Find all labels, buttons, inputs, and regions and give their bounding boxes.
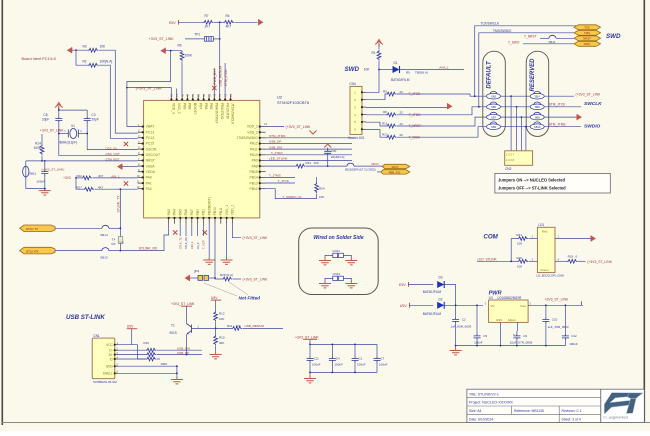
svg-text:+3V3_ST_LINK: +3V3_ST_LINK bbox=[171, 302, 195, 306]
svg-text:10K: 10K bbox=[319, 195, 324, 199]
svg-text:PB15: PB15 bbox=[250, 170, 258, 174]
svg-text:USB_RENUM: USB_RENUM bbox=[219, 66, 223, 87]
svg-text:100nF: 100nF bbox=[569, 342, 578, 346]
svg-text:C10: C10 bbox=[552, 318, 558, 322]
svg-text:100nF: 100nF bbox=[36, 180, 45, 184]
svg-text:PB8_IO2: PB8_IO2 bbox=[389, 170, 401, 174]
net label USB_RENUM bbox=[219, 66, 223, 87]
CN1 pins bbox=[103, 341, 119, 376]
svg-text:TMS/SWDIO: TMS/SWDIO bbox=[493, 29, 512, 33]
wire caps bottom rail bbox=[309, 372, 377, 374]
net label E5V (pwr) bbox=[399, 282, 433, 287]
svg-text:U2: U2 bbox=[277, 95, 283, 100]
svg-text:10K[N.A]: 10K[N.A] bbox=[100, 60, 113, 64]
wire USB_RENUM column bbox=[219, 87, 221, 95]
svg-text:R11: R11 bbox=[227, 324, 233, 328]
note box Wired on Solder Side bbox=[299, 228, 379, 295]
node R3/R2 junction bbox=[75, 49, 77, 51]
svg-text:JTCK/SWCLK: JTCK/SWCLK bbox=[231, 103, 235, 125]
title block table bbox=[467, 389, 601, 422]
wire PB12 to T_SWDIO_IN bbox=[266, 189, 317, 199]
svg-text:SB8: SB8 bbox=[535, 115, 541, 119]
svg-text:PB5: PB5 bbox=[209, 103, 213, 110]
svg-text:100nF: 100nF bbox=[334, 362, 343, 366]
resistor R31 100 (MCO) bbox=[266, 161, 329, 168]
svg-text:PB9: PB9 bbox=[182, 103, 186, 110]
net label +3V3_ST_LINK (osc) bbox=[40, 129, 82, 134]
svg-text:PA9: PA9 bbox=[252, 159, 258, 163]
X mark PC15 bbox=[124, 142, 128, 146]
wire PA10 row / net T_JTDO bbox=[266, 151, 352, 155]
net labels OSC_IN OSC_OUT STM_RST bbox=[105, 146, 120, 161]
capacitor C1 100nF bbox=[352, 344, 366, 372]
svg-text:(+3V3_ST_LINK: (+3V3_ST_LINK bbox=[243, 278, 269, 282]
svg-text:SB4: SB4 bbox=[535, 95, 541, 99]
svg-text:D2: D2 bbox=[439, 298, 443, 302]
svg-text:NRST: NRST bbox=[146, 159, 155, 163]
group outline RESERVED bbox=[526, 51, 549, 136]
svg-text:100K: 100K bbox=[185, 54, 193, 58]
svg-text:PB4/JNTRST: PB4/JNTRST bbox=[215, 103, 219, 123]
svg-text:SB10: SB10 bbox=[534, 125, 541, 129]
svg-text:C30: C30 bbox=[331, 149, 337, 153]
svg-text:R24: R24 bbox=[319, 186, 325, 190]
svg-text:R7: R7 bbox=[205, 14, 209, 18]
ground (pwr) bbox=[450, 346, 462, 355]
wire R3 to PC13 bbox=[72, 50, 138, 133]
ST logo bbox=[603, 393, 643, 420]
svg-text:T1: T1 bbox=[171, 323, 175, 327]
ground (CN1) bbox=[171, 377, 183, 384]
wire U5V rail to U3 bbox=[444, 304, 483, 306]
svg-text:LED_STLINK: LED_STLINK bbox=[478, 257, 498, 261]
net label MCO bbox=[372, 162, 380, 166]
svg-text:RESERVED: RESERVED bbox=[530, 58, 536, 92]
port STLK_TX pill bbox=[20, 225, 55, 232]
svg-text:C12: C12 bbox=[571, 334, 577, 338]
svg-text:CN4: CN4 bbox=[349, 82, 356, 86]
resistor R26 10K [N.A] bbox=[215, 273, 241, 281]
power flag above C8/C9 bbox=[55, 103, 63, 112]
power flag (board ident) bbox=[67, 47, 72, 53]
resistor R7 2K7 bbox=[203, 14, 214, 29]
svg-text:T_VCP: T_VCP bbox=[202, 240, 206, 249]
svg-text:PB12: PB12 bbox=[250, 187, 258, 191]
net label USB_DM bbox=[177, 346, 190, 350]
net label USB_DP bbox=[177, 351, 189, 355]
net label LED_STLINK bbox=[477, 239, 512, 263]
connector CN4 Header 6X1 bbox=[348, 82, 365, 140]
svg-text:T_JTMS: T_JTMS bbox=[269, 174, 281, 178]
wire VSS_3 stub bbox=[176, 89, 178, 95]
svg-text:JTMS/SWDIO: JTMS/SWDIO bbox=[237, 136, 259, 140]
svg-text:R10: R10 bbox=[219, 335, 225, 339]
svg-text:+: + bbox=[513, 332, 515, 336]
svg-text:8MHz(12pF): 8MHz(12pF) bbox=[60, 141, 78, 145]
wire VDD_1 to +3V3 bbox=[232, 224, 241, 238]
svg-text:PA1: PA1 bbox=[146, 181, 152, 185]
capacitor C2 1uF_X5R_0603 bbox=[450, 305, 471, 345]
title block text bbox=[469, 392, 582, 421]
svg-text:+3V3_ST_LINK: +3V3_ST_LINK bbox=[545, 298, 569, 302]
svg-text:D-: D- bbox=[109, 349, 112, 353]
op-amp U2 STM32F103CBT6 body bbox=[144, 100, 260, 217]
svg-text:R2: R2 bbox=[83, 60, 87, 64]
svg-text:100K: 100K bbox=[160, 362, 167, 366]
wire R1 to CN4 pin1 bbox=[366, 61, 380, 92]
svg-text:STM_JTMS: STM_JTMS bbox=[269, 134, 285, 138]
wire PWR_EXT column bbox=[213, 68, 215, 95]
svg-text:Sheet: 3 of 4: Sheet: 3 of 4 bbox=[562, 417, 581, 421]
wire U3 GND legs bbox=[500, 322, 517, 345]
svg-text:NRST: NRST bbox=[583, 37, 591, 41]
capacitor C8 20pF bbox=[42, 110, 62, 123]
wire STM_JTCK column bbox=[224, 63, 226, 95]
wire TMS/SWDIO to pad bbox=[478, 29, 578, 108]
wire SB8 row to power bbox=[544, 114, 582, 120]
wire OSCIN path bbox=[78, 123, 138, 150]
svg-text:ANA_1: ANA_1 bbox=[439, 66, 449, 70]
svg-text:STM32F103CBT6: STM32F103CBT6 bbox=[277, 100, 310, 105]
wire LD1 pin1 to power bbox=[555, 235, 596, 242]
svg-text:STLK RX: STLK RX bbox=[26, 250, 39, 254]
svg-text:PC15: PC15 bbox=[146, 142, 155, 146]
svg-text:VBAT: VBAT bbox=[146, 125, 155, 129]
wire TP1 row bbox=[185, 22, 221, 86]
svg-text:Jumpers ON --> NUCLEO Selecte: Jumpers ON --> NUCLEO Selected bbox=[498, 178, 565, 183]
svg-text:10K: 10K bbox=[219, 317, 224, 321]
logo cell bbox=[601, 389, 645, 422]
net label +3V3_ST_LINK (pwr out) bbox=[545, 298, 582, 306]
diode D1 BAT60JFILM bbox=[391, 61, 410, 82]
svg-text:Title: STLINK/V2-1: Title: STLINK/V2-1 bbox=[469, 392, 499, 396]
wire pwr bottom rail bbox=[455, 345, 566, 347]
U2 top pins bbox=[170, 94, 235, 125]
svg-text:(+3V3_ST_LINK: (+3V3_ST_LINK bbox=[576, 92, 602, 96]
resistor R12 10K bbox=[214, 311, 225, 335]
svg-text:20pF: 20pF bbox=[92, 117, 99, 121]
net label +3V3_ST_LINK (MCU top) bbox=[126, 86, 171, 94]
power flag right of R4 bbox=[259, 19, 264, 25]
wire T_SWO to pad bbox=[508, 40, 578, 44]
svg-text:OSC_IN: OSC_IN bbox=[105, 146, 116, 150]
svg-text:VDD_2: VDD_2 bbox=[247, 125, 258, 129]
power flag left of R6 bbox=[160, 48, 182, 54]
svg-text:Green: Green bbox=[540, 268, 549, 272]
svg-text:+3V3_ST_LINK: +3V3_ST_LINK bbox=[40, 129, 64, 133]
svg-text:100nF: 100nF bbox=[357, 362, 366, 366]
wire junction to MCU VDD rail bbox=[127, 51, 171, 88]
capacitor C9 20pF bbox=[84, 110, 99, 123]
svg-text:U5V: U5V bbox=[400, 304, 408, 308]
connector CN12 bbox=[333, 272, 344, 280]
svg-text:STLK TX: STLK TX bbox=[26, 227, 38, 231]
wire JTMS row / net STM_JTMS bbox=[266, 134, 352, 138]
diode D3 BAT60JFILM bbox=[423, 276, 445, 295]
resistor R1 10K bbox=[364, 50, 381, 72]
wire PA9 row / net LED_STLINK bbox=[266, 157, 352, 161]
svg-text:507BBMN-05-SM: 507BBMN-05-SM bbox=[93, 380, 117, 384]
svg-text:D+: D+ bbox=[109, 353, 113, 357]
capacitor C9 10uF_X7R_0805 bbox=[510, 331, 533, 346]
svg-text:R12: R12 bbox=[219, 311, 225, 315]
resistor R2 10K[N.A] bbox=[83, 60, 113, 67]
wires between jumper columns bbox=[501, 95, 531, 151]
title COM bbox=[483, 234, 498, 241]
svg-text:PA4: PA4 bbox=[173, 209, 177, 215]
svg-text:CN1: CN1 bbox=[93, 334, 100, 338]
wire PB14 row / net T_JTMS bbox=[266, 174, 295, 178]
svg-text:TBD[N.A]: TBD[N.A] bbox=[415, 71, 428, 75]
svg-text:BAT60JFILM: BAT60JFILM bbox=[423, 290, 442, 294]
capacitor C12 100nF bbox=[562, 305, 578, 346]
svg-text:PB3/JTDO: PB3/JTDO bbox=[220, 103, 224, 120]
connector CN1 USB bbox=[92, 334, 117, 384]
group outline DEFAULT bbox=[483, 51, 506, 136]
svg-text:VDDA: VDDA bbox=[146, 170, 156, 174]
svg-text:PA3: PA3 bbox=[167, 209, 171, 215]
resistor R3 10K bbox=[83, 45, 107, 52]
capacitor C13 100nF (NRST) bbox=[26, 161, 65, 189]
svg-text:(+3V3_ST_LINK: (+3V3_ST_LINK bbox=[243, 236, 269, 240]
svg-text:Size: A4: Size: A4 bbox=[469, 409, 482, 413]
wire CN4 pin2 to R5 bbox=[366, 94, 386, 100]
note Not Fitted bbox=[204, 282, 260, 301]
svg-text:R5: R5 bbox=[406, 71, 410, 75]
capacitor C10 1uF_X5R_0603 bbox=[542, 305, 568, 345]
svg-text:VSS_1: VSS_1 bbox=[225, 205, 229, 216]
capacitor C7 100nF bbox=[374, 344, 388, 372]
svg-text:LD1: LD1 bbox=[538, 223, 544, 227]
wire osc top rail bbox=[59, 109, 87, 111]
power flag U5V (CN1) bbox=[119, 325, 138, 345]
frame left border bbox=[1, 0, 3, 425]
svg-text:USB_DM: USB_DM bbox=[269, 145, 282, 149]
wire R2 to PC14 bbox=[76, 50, 138, 138]
svg-text:PA6: PA6 bbox=[184, 209, 188, 215]
power flag above R1 bbox=[375, 40, 383, 50]
jumpers SB4 SB6 SB8 SB10 bbox=[530, 91, 544, 129]
resistor R4 4K7 bbox=[224, 14, 235, 29]
svg-text:Vin: Vin bbox=[491, 304, 496, 308]
net label PWR_EXT bbox=[212, 69, 217, 91]
connector SWD pads bbox=[574, 25, 601, 47]
svg-text:PA0: PA0 bbox=[146, 176, 152, 180]
svg-text:STLINK_RX: STLINK_RX bbox=[139, 246, 158, 250]
resistor R10 36K bbox=[214, 335, 225, 353]
svg-text:+3V3_ST_LINK: +3V3_ST_LINK bbox=[149, 37, 175, 41]
wire +3V3 to VBAT bbox=[127, 88, 138, 127]
svg-text:SWCLK: SWCLK bbox=[584, 101, 602, 107]
LED LD1 bicolor bbox=[537, 223, 564, 277]
svg-text:CN2: CN2 bbox=[505, 167, 512, 171]
net label U5V (pwr) bbox=[400, 303, 433, 308]
resistor R24 10K bbox=[315, 177, 325, 199]
svg-text:R3: R3 bbox=[83, 45, 87, 49]
svg-text:36K: 36K bbox=[219, 341, 224, 345]
svg-text:(+3V3_ST_LINK: (+3V3_ST_LINK bbox=[286, 125, 312, 129]
wire U3 output rail bbox=[528, 304, 583, 306]
svg-text:100: 100 bbox=[517, 264, 522, 268]
regulator U3 LD1086D2M33R bbox=[485, 296, 532, 323]
svg-text:LED_STLINK: LED_STLINK bbox=[269, 157, 289, 161]
wire R27 row bbox=[76, 178, 138, 190]
net label +3V3_ST_LINK (VDD_2) bbox=[286, 125, 317, 134]
svg-text:MCO: MCO bbox=[392, 165, 399, 169]
ground (PB10) bbox=[203, 258, 215, 265]
ref U2 label bbox=[277, 95, 310, 105]
capacitor C30 20pF[N.A] bbox=[324, 144, 344, 166]
label Board Ident PC13=0 bbox=[22, 57, 57, 61]
svg-text:PWR_EXT: PWR_EXT bbox=[213, 69, 217, 85]
net label +3V3_ST_LINK (caps) bbox=[295, 335, 319, 344]
wire OSCOUT path bbox=[58, 123, 138, 156]
svg-text:SB13: SB13 bbox=[100, 255, 108, 259]
svg-text:SB14: SB14 bbox=[100, 233, 108, 237]
svg-text:R11: R11 bbox=[382, 121, 388, 125]
svg-text:USB_DP: USB_DP bbox=[269, 140, 281, 144]
svg-text:10K: 10K bbox=[364, 68, 371, 72]
svg-text:9015: 9015 bbox=[170, 331, 177, 335]
svg-text:SWDIO: SWDIO bbox=[584, 123, 601, 129]
svg-text:+3V3: +3V3 bbox=[63, 176, 71, 180]
resistor R15 (D+) bbox=[119, 353, 202, 357]
svg-text:PB11: PB11 bbox=[219, 207, 223, 215]
svg-text:Wired on Solder Side: Wired on Solder Side bbox=[313, 235, 363, 241]
wire USB_RENUM out bbox=[243, 327, 284, 329]
resistor R13 22 T_SWO bbox=[366, 127, 487, 140]
svg-text:PB1: PB1 bbox=[202, 209, 206, 216]
ground (CN11 left) bbox=[319, 258, 331, 265]
svg-text:C2: C2 bbox=[462, 318, 466, 322]
svg-text:STM_JTMS: STM_JTMS bbox=[549, 122, 566, 126]
title SWD bbox=[345, 66, 360, 73]
svg-text:2 4 6 8: 2 4 6 8 bbox=[506, 158, 514, 162]
svg-text:PA5: PA5 bbox=[178, 209, 182, 215]
svg-text:VDD_3: VDD_3 bbox=[172, 103, 176, 114]
connector CN2 bbox=[505, 151, 533, 171]
ground (CN12 right) bbox=[345, 281, 357, 288]
svg-text:T_SWO: T_SWO bbox=[508, 40, 520, 44]
CN4 pins bbox=[354, 91, 366, 132]
svg-text:CN3: CN3 bbox=[119, 241, 125, 245]
svg-text:22: 22 bbox=[400, 90, 404, 94]
svg-text:PA2: PA2 bbox=[146, 187, 152, 191]
port STLK_RX pill bbox=[20, 247, 55, 254]
resistor R19 0 bbox=[555, 254, 586, 263]
wire T_NRST to pad via SB12 bbox=[524, 34, 578, 44]
svg-text:VSS_3: VSS_3 bbox=[177, 103, 181, 114]
svg-text:100: 100 bbox=[314, 161, 319, 165]
power net label E5V bbox=[169, 20, 179, 25]
resistor R17 100K (ID) bbox=[119, 357, 168, 366]
svg-text:10K: 10K bbox=[100, 45, 107, 49]
resistor R8 22 T_JTMS bbox=[366, 107, 487, 117]
svg-text:GND: GND bbox=[496, 318, 502, 322]
svg-text:AIN_1: AIN_1 bbox=[190, 241, 194, 249]
svg-text:+3V3_ST_LINK: +3V3_ST_LINK bbox=[295, 335, 319, 339]
svg-text:10uF_X7R_0805: 10uF_X7R_0805 bbox=[510, 341, 533, 345]
svg-text:VSS_2: VSS_2 bbox=[247, 130, 258, 134]
svg-text:life.augmented: life.augmented bbox=[603, 416, 628, 420]
capacitor C5 100nF bbox=[474, 305, 488, 345]
net label STLINK_RX bbox=[120, 224, 168, 251]
svg-text:U3: U3 bbox=[489, 296, 493, 300]
wire PA11 row / net USB_DM bbox=[266, 145, 352, 149]
net label +3V3_ST_LINK (VDD_1) bbox=[243, 236, 269, 240]
svg-text:SB15(DEFAULT CLOSED): SB15(DEFAULT CLOSED) bbox=[345, 168, 376, 172]
resistor R16 (D-) bbox=[119, 341, 202, 352]
net label +3V3_ST_LINK at TP1 bbox=[149, 37, 175, 41]
svg-text:C4: C4 bbox=[336, 356, 340, 360]
svg-text:STLK_TX: STLK_TX bbox=[178, 237, 182, 249]
svg-text:SWD: SWD bbox=[606, 33, 621, 40]
svg-text:T_JTDO: T_JTDO bbox=[271, 151, 283, 155]
svg-text:PA15/JTDI: PA15/JTDI bbox=[225, 103, 229, 119]
svg-text:PA8: PA8 bbox=[252, 164, 258, 168]
frame right border bbox=[643, 0, 645, 423]
power flag U5V (R12) bbox=[211, 296, 221, 311]
svg-text:OSCIN: OSCIN bbox=[146, 147, 157, 151]
svg-text:T_NRST: T_NRST bbox=[524, 34, 536, 38]
solder bridge SB15 bbox=[328, 163, 383, 172]
svg-text:PB2/BOOT1: PB2/BOOT1 bbox=[207, 196, 211, 215]
wire E5V rail bbox=[179, 21, 258, 23]
wire VSS_1 to ground bbox=[226, 224, 228, 258]
wire D3 to rail bbox=[444, 285, 455, 306]
net label +3V3_ST_LINK (LD1) bbox=[587, 260, 613, 264]
svg-text:PB14: PB14 bbox=[250, 176, 258, 180]
svg-text:SWD: SWD bbox=[345, 66, 360, 73]
svg-text:Vout: Vout bbox=[520, 304, 526, 308]
svg-text:R19: R19 bbox=[568, 254, 574, 258]
svg-text:R8: R8 bbox=[383, 110, 387, 114]
svg-text:PB10: PB10 bbox=[213, 207, 217, 215]
svg-text:2K7: 2K7 bbox=[205, 25, 211, 29]
svg-text:LD_BICOLOR_CMS: LD_BICOLOR_CMS bbox=[537, 273, 564, 277]
svg-text:SB12: SB12 bbox=[549, 40, 556, 44]
wire CN4 pin3 to power bbox=[366, 103, 453, 109]
svg-text:BOOT0: BOOT0 bbox=[193, 103, 197, 115]
wire SB6 row to SWCLK bbox=[544, 101, 602, 107]
svg-text:T_JTCK: T_JTCK bbox=[278, 179, 290, 183]
svg-text:PA10: PA10 bbox=[250, 153, 258, 157]
solder bridge SB13 bbox=[55, 248, 121, 260]
svg-text:STM_JTCK: STM_JTCK bbox=[224, 69, 228, 87]
svg-text:R1: R1 bbox=[372, 51, 376, 55]
svg-text:Date: 6/10/2014: Date: 6/10/2014 bbox=[469, 417, 493, 421]
svg-text:PB6: PB6 bbox=[204, 103, 208, 110]
net label STM_JTCK bbox=[224, 69, 228, 87]
svg-text:SB7: SB7 bbox=[491, 115, 497, 119]
frame bottom border bbox=[2, 422, 650, 424]
svg-text:DEFAULT: DEFAULT bbox=[487, 60, 493, 89]
svg-text:Red: Red bbox=[542, 230, 548, 234]
wires CN11 to grounds bbox=[325, 255, 351, 258]
svg-text:PA11: PA11 bbox=[250, 147, 258, 151]
resistor R11 22 T_NRST bbox=[366, 117, 487, 128]
svg-text:VCC: VCC bbox=[106, 343, 113, 347]
wire TX/RX link bbox=[112, 228, 125, 250]
svg-text:20pF: 20pF bbox=[42, 117, 49, 121]
svg-text:R6: R6 bbox=[178, 43, 182, 47]
wire PB13 row / net T_JTCK bbox=[266, 179, 295, 183]
svg-text:100nF: 100nF bbox=[379, 362, 388, 366]
svg-text:USB_DP: USB_DP bbox=[177, 351, 189, 355]
ground (caps row) bbox=[304, 372, 316, 383]
wire R22 row bbox=[75, 177, 138, 179]
svg-text:STLK_RX: STLK_RX bbox=[184, 237, 188, 249]
